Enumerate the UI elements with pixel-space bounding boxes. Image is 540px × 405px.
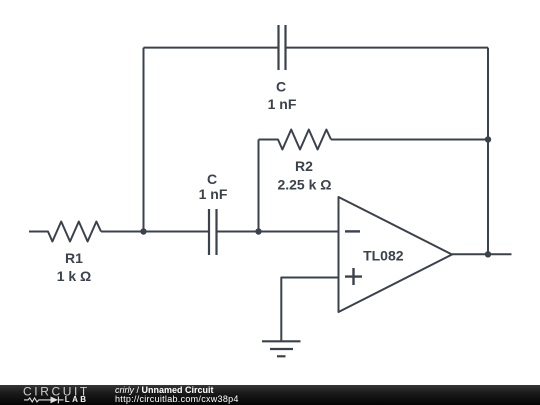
- svg-text:LAB: LAB: [65, 395, 89, 404]
- wire right vertical: [487, 48, 489, 255]
- svg-text:2.25 k Ω: 2.25 k Ω: [277, 177, 331, 193]
- wire R2 to right vertical: [331, 139, 488, 141]
- junction node at C / R2 branch: [255, 228, 261, 234]
- junction node at R1 / feedback C: [140, 228, 146, 234]
- wire feedback capacitor to right vertical: [286, 47, 489, 49]
- svg-text:1 nF: 1 nF: [199, 186, 228, 202]
- ground: [262, 341, 301, 356]
- wire top left to feedback capacitor: [144, 47, 279, 49]
- svg-text:C: C: [276, 79, 286, 95]
- resistor R1: [29, 222, 101, 242]
- junction node at output: [485, 251, 491, 257]
- wire R2 branch vertical: [258, 140, 260, 232]
- svg-text:1 nF: 1 nF: [268, 96, 297, 112]
- svg-text:R1: R1: [65, 250, 83, 266]
- footer title text: [115, 386, 239, 405]
- svg-text:R2: R2: [295, 158, 313, 174]
- wire C to op-amp inverting input: [217, 231, 339, 233]
- CircuitLab logo: [0, 383, 110, 405]
- op-amp minus pin symbol: [345, 230, 360, 232]
- svg-text:1 k Ω: 1 k Ω: [57, 268, 92, 284]
- wire R1 to C input: [101, 231, 209, 233]
- wire output: [452, 253, 512, 255]
- op-amp U1 TL082 triangle: [339, 197, 453, 312]
- resistor R2: [259, 130, 332, 150]
- svg-text:C: C: [207, 171, 217, 187]
- wire left vertical (feedback C branch): [143, 48, 145, 232]
- footer bar: [0, 385, 540, 405]
- wire non-inverting input: [281, 278, 338, 342]
- capacitor C (series input): [209, 209, 217, 255]
- op-amp plus pin symbol: [345, 268, 362, 285]
- capacitor C (top feedback): [279, 25, 286, 70]
- svg-text:TL082: TL082: [363, 248, 404, 264]
- junction node at R2 / right vertical: [485, 136, 491, 142]
